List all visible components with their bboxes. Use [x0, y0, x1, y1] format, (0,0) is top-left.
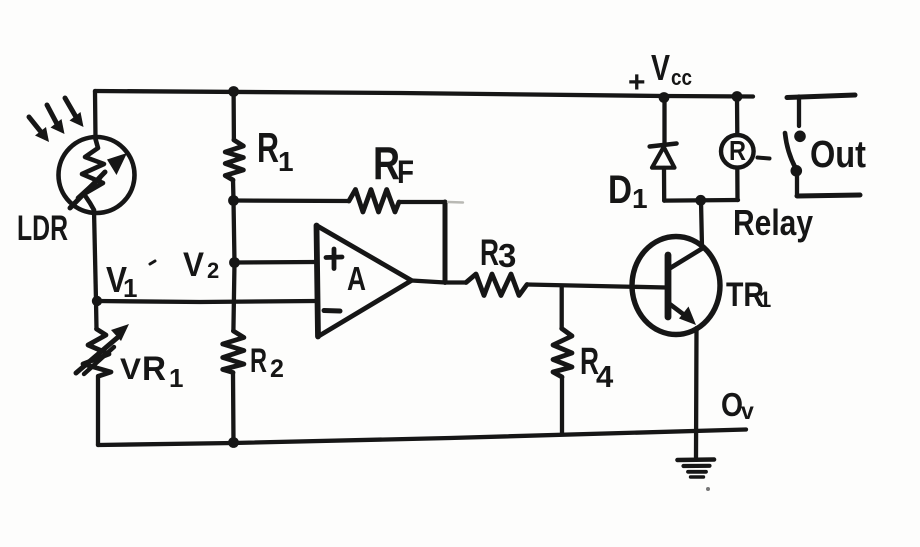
svg-text:1: 1: [632, 183, 648, 214]
svg-text:R: R: [257, 124, 279, 171]
svg-text:2: 2: [270, 355, 284, 383]
svg-text:R: R: [142, 350, 166, 388]
svg-text:2: 2: [207, 258, 219, 283]
svg-text:LDR: LDR: [17, 209, 68, 248]
svg-text:O: O: [721, 386, 743, 423]
svg-text:cc: cc: [671, 65, 692, 90]
svg-text:Relay: Relay: [733, 202, 813, 243]
svg-text:+: +: [628, 66, 646, 99]
svg-text:1: 1: [169, 363, 183, 393]
svg-text:Out: Out: [810, 134, 866, 176]
svg-text:V: V: [651, 47, 670, 88]
svg-text:D: D: [608, 168, 632, 212]
svg-text:3: 3: [498, 237, 516, 274]
svg-text:1: 1: [123, 273, 137, 303]
svg-text:F: F: [397, 154, 414, 190]
svg-text:4: 4: [596, 359, 614, 394]
svg-text:V: V: [120, 353, 141, 386]
svg-text:R: R: [373, 137, 400, 189]
svg-text:R: R: [250, 342, 267, 380]
svg-text:v: v: [741, 398, 754, 424]
svg-text:R: R: [729, 135, 746, 166]
svg-text:R: R: [480, 232, 499, 273]
svg-text:V: V: [183, 246, 204, 284]
svg-text:A: A: [347, 260, 366, 297]
svg-text:1: 1: [759, 287, 771, 312]
svg-text:1: 1: [278, 146, 294, 177]
